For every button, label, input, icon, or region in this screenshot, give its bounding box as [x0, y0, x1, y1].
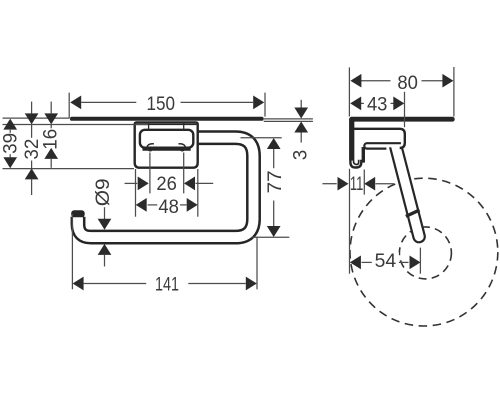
svg-text:150: 150: [147, 94, 176, 115]
cover plate (front view): [140, 130, 193, 148]
clip bar (side view): [362, 147, 365, 163]
svg-text:54: 54: [375, 251, 397, 272]
stub right: [183, 122, 185, 129]
wall plate top inner line: [136, 123, 196, 125]
stub left: [148, 122, 150, 129]
holder arm white core: [396, 147, 419, 237]
svg-text:Ø9: Ø9: [93, 178, 114, 206]
dashed roll circle small: [399, 227, 451, 279]
svg-text:43: 43: [367, 94, 388, 115]
svg-text:11: 11: [350, 174, 364, 195]
svg-text:77: 77: [265, 170, 286, 193]
svg-text:16: 16: [40, 129, 61, 150]
svg-text:48: 48: [158, 197, 179, 218]
wall plate outer profile (side view): [350, 119, 361, 168]
svg-text:80: 80: [397, 73, 418, 94]
svg-text:3: 3: [291, 150, 312, 161]
clip mark left: [147, 144, 154, 151]
arm joint bar: [406, 210, 420, 216]
wall plate inner profile (side view): [354, 119, 359, 165]
dashed roll circle large: [350, 178, 498, 326]
wall plate outer (front view): [135, 122, 198, 167]
svg-text:141: 141: [155, 274, 179, 295]
shelf bar (side view): [349, 117, 454, 122]
holder arm (side view): [396, 147, 419, 237]
wire roll holder (front view) white core: [78, 138, 254, 237]
bracket interior white: [366, 130, 404, 147]
wall plate solid bar (side view): [349, 119, 353, 161]
cover plate bottom thick line: [143, 148, 191, 151]
bracket cover line (side view): [354, 129, 405, 148]
svg-text:26: 26: [156, 174, 177, 195]
hook end cap: [71, 210, 85, 217]
wire roll holder (front view) outline: [78, 138, 254, 237]
holder band (side view): [364, 143, 401, 148]
shelf bar (front view): [70, 117, 264, 121]
clip mark right: [179, 144, 186, 151]
svg-text:39: 39: [1, 133, 22, 154]
